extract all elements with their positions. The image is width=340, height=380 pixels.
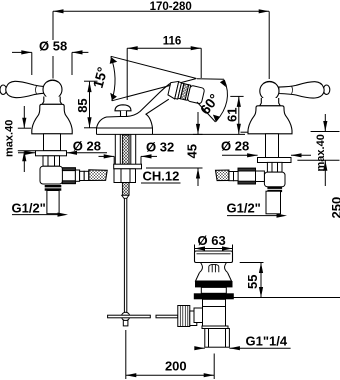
- dimension max.40 left: [18, 106, 36, 172]
- left side outlet compression nut: [62, 168, 79, 184]
- pivot tube into drain: [190, 311, 197, 326]
- drain white spacer ring: [201, 287, 226, 293]
- svg-text:max.40: max.40: [315, 134, 327, 171]
- svg-text:200: 200: [165, 359, 187, 374]
- right handle neck: [260, 98, 281, 106]
- rod lower tip: [123, 320, 128, 326]
- right handle lever grip: [279, 82, 330, 98]
- deck tick left of right bell: [241, 131, 249, 133]
- center pop-up knob: [115, 105, 131, 117]
- svg-text:Ø 58: Ø 58: [39, 39, 67, 54]
- right handle ball: [260, 81, 279, 100]
- right escutcheon bell: [248, 106, 292, 134]
- svg-text:max.40: max.40: [4, 120, 16, 157]
- dimension Ø28 left: [18, 152, 107, 154]
- thin pop-up rod: [124, 198, 126, 312]
- drain cap center knurl detail: [209, 264, 219, 272]
- right side outlet compression nut: [238, 168, 264, 184]
- clevis knurled nut: [178, 306, 190, 327]
- right valve hex bands: [267, 187, 282, 193]
- svg-text:250: 250: [329, 197, 340, 219]
- horizontal pop-up link rod: [108, 315, 178, 318]
- right stem: [266, 134, 279, 158]
- left hex nut: [43, 156, 60, 166]
- svg-text:Ø 63: Ø 63: [198, 233, 226, 248]
- svg-text:G1"1/4: G1"1/4: [246, 334, 288, 349]
- right valve body: [264, 172, 285, 187]
- rod clamp ball: [121, 312, 129, 320]
- drain neck spool: [200, 263, 228, 273]
- left handle neck: [42, 97, 62, 105]
- svg-text:CH.12: CH.12: [143, 169, 180, 184]
- right G1/2 tail: [266, 191, 281, 214]
- left flex hose: [89, 170, 107, 181]
- svg-text:55: 55: [245, 275, 260, 289]
- center washer Ø32: [114, 164, 142, 169]
- left hose ferrule: [80, 171, 89, 180]
- drain body upper: [203, 299, 226, 306]
- svg-text:G1/2": G1/2": [227, 201, 261, 216]
- left handle ball: [43, 80, 62, 99]
- right flex hose: [216, 170, 229, 181]
- CH.12 hex nut: [114, 169, 136, 183]
- svg-text:85: 85: [75, 98, 90, 112]
- svg-text:Ø 28: Ø 28: [73, 138, 101, 153]
- left handle lever grip: [0, 81, 46, 97]
- drain body lower: [194, 307, 226, 329]
- center body and spout: [97, 84, 171, 129]
- left valve body: [40, 166, 63, 184]
- drain gasket band 2: [194, 293, 234, 299]
- dimension 45: [146, 112, 203, 186]
- aerator assembly: [167, 80, 205, 105]
- dimension Ø28 right: [222, 154, 311, 156]
- svg-text:Ø 28: Ø 28: [221, 138, 249, 153]
- dimension 116: [127, 48, 201, 100]
- svg-text:Ø 32: Ø 32: [146, 140, 174, 155]
- dimension 85: [84, 81, 98, 128]
- dimension 61: [230, 96, 243, 134]
- right hose ferrule: [229, 172, 238, 181]
- svg-text:G1/2": G1/2": [12, 201, 46, 216]
- svg-text:170-280: 170-280: [150, 1, 192, 13]
- svg-text:61: 61: [225, 108, 240, 122]
- svg-text:116: 116: [163, 35, 182, 47]
- dimension 15 degrees: [111, 56, 197, 101]
- dimension 60 degrees: [197, 79, 227, 122]
- left valve hex bands: [45, 185, 62, 191]
- drain tail pipe G1 1/4: [205, 329, 230, 348]
- dimension Ø32: [99, 156, 158, 164]
- dimension 200: [126, 330, 214, 379]
- dimension 55: [240, 263, 264, 298]
- left washer: [36, 151, 67, 156]
- center threaded rod lower: [122, 183, 129, 196]
- right washer: [258, 158, 292, 163]
- rod taper tip: [122, 195, 129, 198]
- left stem: [44, 134, 61, 151]
- center deck line: [97, 128, 246, 134]
- drain cap: [195, 251, 233, 263]
- left escutcheon bell: [32, 104, 72, 134]
- svg-text:45: 45: [185, 144, 200, 158]
- drain flare: [196, 273, 232, 282]
- drain lower flange: [202, 326, 228, 329]
- right hex nut: [267, 162, 282, 172]
- basin reference line: [227, 297, 340, 299]
- dimension 170-280 top: [53, 11, 269, 79]
- drain gasket band 1: [195, 281, 233, 287]
- left G1/2 tail: [47, 191, 59, 214]
- center threaded rod upper: [122, 135, 129, 164]
- center shank tube: [115, 134, 135, 164]
- dimension Ø58: [12, 52, 88, 75]
- dimension max.40 right: [297, 114, 339, 186]
- dimension Ø63: [195, 245, 233, 253]
